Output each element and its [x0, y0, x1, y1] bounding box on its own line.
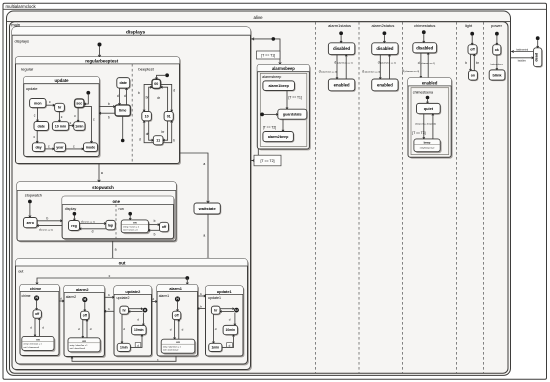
wire day to year, label c	[45, 148, 54, 150]
wire down to 10min, label d (update1)	[234, 313, 236, 326]
wire update to time, label b	[99, 106, 115, 108]
state beep with action	[415, 140, 441, 153]
wire ok to blink, label battweakens	[496, 55, 498, 70]
wire initial to disabled (alarm1status)	[340, 35, 342, 42]
svg-text:a: a	[203, 162, 205, 166]
wire 10 to 11, label dr	[149, 121, 153, 140]
svg-text:a: a	[101, 171, 103, 175]
svg-text:a: a	[115, 247, 117, 251]
state blink	[490, 71, 506, 81]
wire sec to 1min, label c	[77, 108, 79, 122]
state 10min (update1)	[224, 326, 239, 335]
region separator regular|beeptest	[131, 64, 133, 164]
wire date to day, label c	[36, 131, 38, 143]
state 00 (default)	[153, 80, 162, 89]
wire waitstate to out, label a	[207, 214, 209, 260]
svg-text:chimestatus: chimestatus	[414, 23, 435, 28]
state zero	[25, 219, 39, 229]
wire lap to reg, label d	[80, 228, 106, 230]
wire down to 10min, label d (update2)	[142, 313, 144, 326]
wire enabled-disabled up, label d [chimeon == 0]	[427, 53, 429, 78]
region separator alarm1status|alarm2status	[358, 22, 360, 373]
initial dot (power)	[495, 32, 499, 36]
initial dot (light)	[470, 32, 474, 36]
svg-text:chime: chime	[30, 286, 42, 291]
wire history to hr (update2)	[129, 311, 143, 313]
initial dot of displays region	[98, 43, 102, 47]
wire enabled-disabled up, label d [alarm1on == 0]	[345, 55, 347, 79]
wire initial to sec	[85, 95, 89, 104]
wire alarm1beep to guardstate, label [T == T1]	[286, 91, 288, 110]
initial dot of update region	[86, 91, 90, 95]
svg-text:update: update	[54, 78, 69, 83]
svg-text:stopwatch: stopwatch	[92, 185, 114, 190]
svg-text:regular: regular	[21, 67, 34, 72]
history pseudostate (chime)	[34, 295, 39, 300]
initial dot (alarm1status)	[339, 31, 343, 35]
wire regularbeeptest to stopwatch, label a	[98, 164, 100, 182]
svg-text:alarm2: alarm2	[66, 295, 76, 299]
state off (run)	[161, 223, 170, 232]
wire initial to on	[129, 216, 131, 220]
wire off-on down, label b (light)	[470, 54, 472, 70]
initial dot of alarmsbeep	[260, 113, 264, 117]
state on (light)	[470, 72, 479, 82]
svg-text:blink: blink	[492, 72, 502, 77]
wire back into displays	[251, 160, 254, 162]
composite state update2	[115, 287, 152, 357]
wire alarm1 to update1, label b	[198, 295, 206, 297]
wire on to off, label b	[148, 224, 159, 226]
state hr (update2)	[121, 307, 130, 315]
state lap	[107, 221, 117, 230]
wire 10 to 00, label br	[149, 87, 152, 111]
composite state out	[17, 260, 249, 366]
svg-text:alarm1status: alarm1status	[328, 23, 351, 28]
svg-text:date: date	[38, 124, 45, 128]
region border chimestsena	[411, 88, 449, 155]
transition label box [T == T1]	[257, 51, 281, 59]
wire regularbeeptest to waitstate, label a	[180, 153, 209, 203]
svg-text:b: b	[47, 217, 49, 221]
svg-text:alarm2status: alarm2status	[371, 23, 394, 28]
svg-text:disabled: disabled	[333, 46, 350, 51]
wire time to update, label b	[99, 112, 115, 114]
wire initial to regularbeeptest	[99, 47, 101, 57]
state 11	[154, 137, 164, 146]
composite state displays	[13, 28, 252, 371]
svg-text:exit / alarm1on=0: exit / alarm1on=0	[163, 349, 179, 352]
svg-text:[T == T3]: [T == T3]	[412, 131, 425, 135]
state time (default)	[116, 106, 131, 117]
svg-text:exit / chimeson=0: exit / chimeson=0	[24, 346, 41, 349]
region separator chimestatus|light	[456, 22, 458, 373]
state on with actions (alarm2)	[69, 339, 101, 353]
svg-text:on: on	[176, 340, 180, 344]
svg-text:on: on	[82, 339, 86, 343]
wire initial to quiet	[427, 99, 429, 103]
svg-text:[T == T1]: [T == T1]	[289, 96, 302, 100]
svg-text:alarm1: alarm1	[159, 294, 169, 298]
state 10 min	[53, 123, 69, 132]
svg-text:update2: update2	[125, 289, 141, 294]
svg-text:1min: 1min	[75, 124, 83, 128]
state mon	[31, 100, 47, 109]
wire initial to guardstate	[264, 113, 278, 115]
initial dot (chimestsena)	[426, 96, 430, 100]
wire hr to history (update2)	[129, 308, 143, 310]
svg-text:entry / chimeson = 1: entry / chimeson = 1	[24, 343, 43, 346]
initial dot (chimestatus)	[422, 30, 426, 34]
composite state stopwatch	[18, 183, 177, 242]
state hr (update1)	[212, 307, 221, 315]
svg-text:exit / runon = 0: exit / runon = 0	[123, 229, 138, 232]
svg-text:zero: zero	[27, 221, 35, 225]
wire 11 to 10, label d	[144, 121, 153, 143]
wire quiet to beep, label [beepcnt == beepend]	[423, 114, 425, 139]
svg-text:entry / runon = 1: entry / runon = 1	[123, 226, 140, 229]
state alarm1beep	[264, 82, 296, 92]
svg-text:mode: mode	[86, 145, 96, 149]
wire beep to quiet, label [T == T3]	[432, 114, 434, 139]
svg-text:time: time	[119, 109, 126, 113]
initial dot (dead)	[536, 36, 540, 40]
state 01	[165, 113, 174, 122]
wire stopwatch to out, label a	[112, 241, 114, 260]
wire 10 min to 1min, label c	[69, 125, 74, 127]
svg-text:chimestsena: chimestsena	[413, 90, 433, 94]
composite state alarmsbeep	[259, 66, 311, 150]
wire reg to lap, label d [runin == 1]	[80, 223, 106, 225]
svg-text:light: light	[465, 23, 473, 28]
state enabled (alarm2status)	[373, 80, 399, 92]
svg-text:update: update	[26, 87, 38, 91]
svg-text:alarmsbeep: alarmsbeep	[262, 75, 281, 79]
svg-text:sec: sec	[76, 102, 82, 106]
state disabled (alarm2status)	[373, 44, 399, 56]
svg-text:enabled: enabled	[377, 82, 393, 87]
wire time down to junction	[122, 116, 124, 139]
history pseudostate (alarm2)	[82, 297, 87, 302]
svg-text:11: 11	[156, 139, 160, 143]
history pseudostate (update2)	[143, 308, 148, 313]
wire history to hr (update1)	[220, 311, 234, 313]
composite state update	[25, 78, 101, 158]
history pseudostate (alarm1)	[175, 296, 180, 301]
wire dead to alive, label battinserted	[511, 51, 534, 53]
history pseudostate (update1)	[234, 308, 239, 313]
svg-text:alarmsbeep: alarmsbeep	[272, 66, 295, 71]
wire history to off (alarm1)	[177, 302, 179, 311]
svg-text:10min: 10min	[134, 328, 144, 332]
state 1min (update1)	[210, 344, 223, 352]
wire history to off (chime)	[36, 301, 38, 310]
wire c-loop top into chime, label c	[37, 278, 187, 284]
state day	[33, 144, 45, 153]
wire initial to alarm1	[186, 278, 188, 284]
junction dot below time	[121, 139, 125, 143]
state 10	[143, 113, 153, 122]
svg-text:on: on	[133, 221, 137, 225]
wire alarmsbeep exit down	[257, 149, 259, 155]
wire mon to date, label c	[37, 108, 39, 122]
svg-text:[T == T1]: [T == T1]	[261, 54, 275, 58]
wire off-on down, label d (alarm1)	[174, 320, 176, 339]
wire alarm2 to update2, label b	[104, 296, 114, 298]
state hr	[56, 104, 66, 112]
svg-text:displays: displays	[15, 39, 29, 44]
svg-text:date: date	[120, 81, 127, 85]
svg-text:b: b	[154, 219, 156, 223]
region separator alarm2status|chimestatus	[402, 22, 404, 373]
svg-text:waitstate: waitstate	[198, 206, 217, 211]
svg-text:year: year	[56, 145, 64, 149]
composite state alarm2	[65, 287, 105, 358]
composite state update1	[207, 287, 245, 357]
state 1min (update2)	[118, 344, 131, 352]
svg-text:displays: displays	[126, 30, 146, 36]
svg-text:update1: update1	[217, 289, 233, 294]
state guardstate	[279, 110, 308, 120]
wire disabled-enabled down, label d [alarm2on == 1]	[379, 55, 381, 79]
composite state enabled (chimestatus)	[409, 79, 452, 158]
svg-text:d: d	[92, 229, 94, 233]
svg-text:battdies: battdies	[518, 60, 527, 63]
wire on-off up, label d (chime)	[38, 318, 40, 336]
wire hr to 1min, label d (update1)	[213, 314, 215, 343]
wire on-off up, label d (alarm1)	[178, 320, 180, 339]
svg-text:b: b	[108, 102, 110, 106]
svg-text:H: H	[235, 308, 237, 312]
state on with actions (chime)	[23, 338, 55, 352]
svg-text:regularbeeptest: regularbeeptest	[85, 58, 118, 63]
wire initial to 00	[157, 75, 166, 79]
svg-text:d: d	[139, 137, 141, 141]
state on (run) with actions	[123, 221, 150, 234]
svg-text:b: b	[465, 61, 467, 65]
wire history to off (alarm2)	[84, 302, 86, 311]
svg-text:power: power	[491, 23, 503, 28]
svg-text:mon: mon	[34, 101, 42, 105]
state ok	[494, 46, 502, 56]
svg-text:update2: update2	[117, 296, 130, 300]
state enabled (alarm1status)	[329, 80, 355, 92]
wire disabled-enabled down, label d [alarm1on == 1]	[336, 55, 338, 79]
wire enabled-disabled up, label d [alarm2on == 0]	[389, 55, 391, 79]
svg-text:lap: lap	[108, 223, 114, 227]
wire one to zero, label d [runin == 0]	[37, 225, 62, 227]
initial dot (alarm2status)	[383, 31, 387, 35]
wire initial to disabled (chimestatus)	[423, 34, 425, 42]
composite state alarm1	[158, 286, 199, 358]
wire update1 to alarm2 bottom c-loop, label c	[72, 356, 176, 361]
state date (regular)	[118, 79, 131, 90]
svg-text:exit / alarm2on=0: exit / alarm2on=0	[70, 347, 86, 350]
wire 01 to 00, label dr	[161, 87, 168, 111]
wire date-time down, label d	[119, 88, 121, 105]
svg-text:multialarmclock: multialarmclock	[6, 4, 37, 9]
svg-text:d: d	[124, 94, 126, 98]
svg-text:on: on	[471, 74, 475, 78]
wire on-off up, label br (light)	[473, 54, 475, 70]
svg-text:b: b	[108, 116, 110, 120]
state off (alarm2)	[82, 312, 90, 320]
svg-text:quiet: quiet	[424, 106, 434, 111]
region border alarmsbeep	[260, 73, 307, 146]
svg-text:beeptest: beeptest	[138, 67, 154, 72]
svg-text:10min: 10min	[226, 328, 236, 332]
wire initial to disabled (alarm2status)	[383, 35, 385, 42]
transition label box [T == T2]	[254, 155, 281, 166]
svg-text:alarm1: alarm1	[169, 286, 182, 291]
svg-text:b: b	[173, 139, 175, 143]
svg-text:entry / alarm2on = 1: entry / alarm2on = 1	[70, 344, 89, 347]
svg-text:stopwatch: stopwatch	[25, 194, 42, 198]
svg-text:b: b	[154, 232, 156, 236]
svg-text:guardstate: guardstate	[283, 113, 302, 117]
svg-text:update1: update1	[208, 296, 221, 300]
svg-text:day: day	[35, 145, 41, 149]
svg-text:[T == T2]: [T == T2]	[260, 159, 274, 163]
svg-text:one: one	[112, 199, 120, 204]
state disabled (alarm1status)	[329, 44, 355, 56]
svg-text:enabled: enabled	[334, 82, 350, 87]
composite state regularbeeptest	[17, 58, 181, 164]
wire update2 to alarm1, label d	[152, 301, 158, 303]
wire 00 to 01, label d	[161, 84, 172, 111]
region separator light|power	[483, 22, 485, 373]
svg-text:battweakens: battweakens	[491, 63, 504, 66]
svg-text:1min: 1min	[211, 346, 219, 350]
svg-text:out: out	[119, 260, 126, 265]
wire hr to 1min, label d (update2)	[121, 314, 123, 343]
state year	[55, 144, 66, 153]
svg-text:alarm2: alarm2	[76, 287, 89, 292]
wire on-off up, label d (alarm2)	[86, 320, 88, 338]
wire off to on, label b	[148, 229, 159, 231]
svg-text:hr: hr	[58, 106, 62, 110]
wire update2 to alarm2, label b	[104, 310, 114, 312]
wire zero to one, label b	[37, 220, 62, 222]
wire sec loop to mode, label c	[84, 107, 92, 143]
svg-text:1min: 1min	[120, 346, 128, 350]
svg-text:d: d	[117, 94, 119, 98]
wire displays to alarmsbeep	[251, 39, 281, 64]
composite state one	[64, 198, 176, 241]
svg-text:display: display	[65, 207, 77, 211]
state dead (rotated)	[535, 49, 543, 68]
initial dot of run region	[128, 212, 132, 216]
wire 1min to 10min, label d (update1)	[222, 335, 234, 348]
svg-text:disabled: disabled	[376, 46, 393, 51]
wire 00 to 10, label b	[144, 84, 152, 111]
initial dot of stopwatch	[28, 200, 32, 204]
state off (alarm1)	[173, 312, 181, 320]
state date (update)	[35, 123, 50, 132]
wire 11 to 01, label b	[163, 121, 172, 143]
wire 1min to 10min, label d (update2)	[130, 335, 142, 348]
state sec (default)	[76, 100, 85, 109]
svg-text:b: b	[138, 91, 140, 95]
svg-text:10 min: 10 min	[55, 124, 66, 128]
region separator display|run	[115, 205, 117, 239]
svg-text:d: d	[173, 89, 175, 93]
svg-text:alarm1beep: alarm1beep	[268, 84, 289, 88]
state off (light)	[469, 46, 478, 56]
state quiet	[418, 104, 442, 114]
wire hr to history (update1)	[220, 308, 234, 310]
svg-text:enabled: enabled	[422, 80, 438, 85]
wire disabled-enabled down, label d [chimeon == 1]	[420, 53, 422, 78]
svg-text:alarm2beep: alarm2beep	[268, 135, 289, 139]
svg-text:H: H	[144, 308, 146, 312]
state on with actions (alarm1)	[163, 341, 197, 355]
state reg	[70, 222, 81, 232]
svg-text:00: 00	[154, 82, 158, 86]
wire initial to off (light)	[471, 36, 473, 45]
svg-text:a: a	[203, 234, 205, 238]
svg-text:battinserted: battinserted	[516, 49, 529, 52]
initial dot of beeptest	[165, 73, 169, 77]
svg-text:beep: beep	[424, 140, 431, 144]
svg-text:chime: chime	[22, 294, 31, 298]
wire time-date up, label d	[126, 88, 128, 105]
wire 01 to 11, label br	[163, 121, 167, 140]
state off (chime)	[34, 311, 42, 319]
initial dot of display region	[73, 212, 77, 216]
svg-text:[T == T2]: [T == T2]	[263, 126, 276, 130]
svg-text:ok: ok	[495, 48, 499, 52]
composite state chime	[21, 286, 60, 357]
svg-text:reg: reg	[71, 224, 77, 228]
state mode	[85, 144, 99, 153]
wire chime to alarm2, label d	[59, 300, 64, 302]
svg-text:01: 01	[167, 114, 171, 118]
wire year to mode, label c	[66, 148, 84, 150]
region separator displays|alarm1status	[315, 22, 317, 373]
wire initial to ok (power)	[496, 36, 498, 45]
state disabled (chimestatus)	[414, 44, 438, 54]
svg-text:entry / alarm1on = 1: entry / alarm1on = 1	[163, 345, 182, 348]
wire initial to reg	[73, 216, 75, 221]
wire mon to hr, label c	[46, 104, 55, 106]
svg-text:alive: alive	[253, 15, 263, 20]
wire alive to dead, label battdies	[511, 57, 534, 59]
junction dot on displays-alarmsbeep wire	[272, 37, 276, 41]
svg-text:dead: dead	[535, 52, 539, 62]
wire update1 to alarm1, label b	[198, 308, 206, 310]
state waitstate	[195, 204, 221, 215]
svg-text:run: run	[119, 207, 124, 211]
initial dot of out region	[185, 276, 189, 280]
state alarm2beep	[264, 133, 295, 143]
wire guardstate to alarm2beep, label [T == T2]	[282, 119, 284, 131]
svg-text:entry/beepcnt=0: entry/beepcnt=0	[420, 146, 435, 149]
wire initial to zero	[29, 203, 31, 217]
svg-text:10: 10	[145, 114, 149, 118]
svg-text:on: on	[36, 337, 40, 341]
state 10min (update2)	[133, 326, 148, 335]
state 1min (update)	[75, 123, 86, 132]
svg-text:disabled: disabled	[416, 45, 433, 50]
wire off-on down, label d (chime)	[34, 318, 36, 336]
wire initial to dead	[537, 40, 539, 48]
wire off-on down, label d (alarm2)	[82, 320, 84, 338]
wire hr to 10 min, label c	[58, 112, 60, 122]
